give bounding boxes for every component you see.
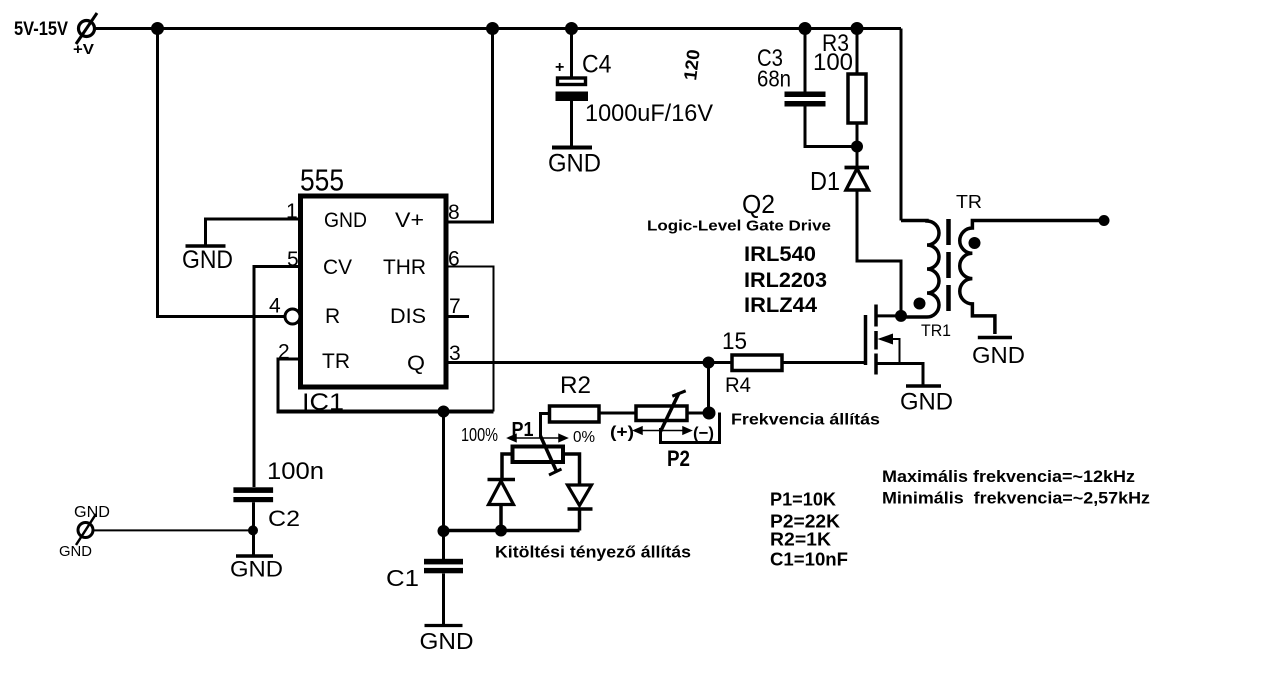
wire node to C1	[442, 412, 445, 532]
node TR/THR/C1	[438, 406, 450, 418]
svg-text:Q: Q	[407, 352, 425, 375]
svg-text:+V: +V	[73, 41, 94, 58]
wire pin 1 to ground	[206, 219, 301, 246]
svg-text:7: 7	[449, 295, 461, 318]
svg-text:GND: GND	[420, 628, 474, 654]
svg-text:Logic-Level Gate Drive: Logic-Level Gate Drive	[647, 218, 831, 235]
svg-text:1000uF/16V: 1000uF/16V	[585, 100, 713, 127]
svg-text:GND: GND	[548, 150, 601, 178]
wire V+ to pin 4 reset	[158, 29, 285, 317]
potentiometer P2	[599, 391, 720, 471]
svg-text:R2: R2	[560, 372, 591, 399]
capacitor C4	[555, 29, 713, 147]
svg-text:TR: TR	[322, 350, 350, 373]
svg-text:IRL2203: IRL2203	[744, 269, 827, 292]
svg-text:C4: C4	[582, 51, 612, 79]
node drain/primary	[895, 310, 907, 322]
ground Q2 source	[900, 386, 953, 416]
svg-text:4: 4	[269, 295, 281, 318]
svg-text:555: 555	[300, 163, 344, 198]
node top rail / reset drop	[151, 22, 164, 35]
svg-text:R4: R4	[725, 374, 751, 397]
transformer TR1 primary	[901, 221, 939, 318]
label frequency range	[882, 467, 1150, 508]
wire node down to P2	[707, 363, 710, 414]
capacitor C3	[757, 29, 857, 147]
svg-text:D1: D1	[810, 166, 840, 196]
svg-text:GND: GND	[182, 246, 233, 274]
svg-text:15: 15	[722, 328, 747, 355]
svg-text:Kitöltési tényező állítás: Kitöltési tényező állítás	[495, 543, 691, 562]
label Q2 types	[647, 189, 831, 317]
wire pin 5 CV to C2	[254, 267, 301, 488]
node top rail / C4	[565, 22, 578, 35]
wire pin 3 Q output	[448, 361, 732, 364]
svg-text:68n: 68n	[757, 66, 791, 92]
node Q/P2	[703, 357, 715, 369]
capacitor C2	[233, 458, 324, 556]
svg-text:100: 100	[813, 49, 853, 76]
wire V+ top rail	[95, 27, 901, 30]
capacitor C1	[386, 525, 463, 626]
wire pin 6 THR drop	[448, 267, 494, 412]
connector GND left	[59, 504, 110, 560]
diode left (duty)	[488, 480, 516, 531]
ground pin1	[182, 246, 233, 274]
svg-text:GND: GND	[972, 342, 1025, 368]
svg-text:+: +	[555, 59, 564, 76]
ground C2	[230, 556, 283, 582]
svg-text:GND: GND	[230, 557, 283, 582]
svg-text:8: 8	[448, 201, 460, 224]
ground C1	[420, 626, 474, 655]
svg-text:IRLZ44: IRLZ44	[744, 294, 817, 317]
svg-text:R2=1K: R2=1K	[770, 530, 831, 550]
node top rail / R3	[851, 22, 864, 35]
wire pin 2 TR loop	[278, 359, 301, 412]
svg-text:C1: C1	[386, 565, 419, 591]
node C3/R3/D1	[851, 141, 863, 153]
svg-text:GND: GND	[324, 209, 367, 232]
svg-text:TR: TR	[956, 192, 982, 212]
wire V+ to pin 8	[448, 29, 493, 223]
svg-text:100%: 100%	[461, 425, 498, 445]
wire gnd connector to C2	[94, 529, 253, 531]
svg-text:5V-15V: 5V-15V	[14, 19, 68, 40]
node top rail / C3	[799, 22, 812, 35]
svg-text:C2: C2	[268, 506, 300, 531]
svg-text:GND: GND	[74, 504, 110, 521]
svg-text:GND: GND	[900, 389, 953, 416]
resistor R2	[541, 372, 600, 437]
svg-text:P1=10K: P1=10K	[770, 490, 836, 510]
connector +V	[73, 13, 97, 58]
wire V+ to transformer primary	[900, 29, 903, 221]
mosfet Q2	[866, 305, 924, 386]
svg-text:DIS: DIS	[390, 305, 426, 328]
ground C4	[548, 148, 601, 178]
svg-text:120: 120	[680, 48, 704, 81]
svg-text:(−): (−)	[693, 424, 714, 443]
pin 7 stub	[448, 315, 469, 318]
svg-text:CV: CV	[323, 256, 352, 279]
potentiometer P1	[461, 419, 595, 485]
svg-text:P2=22K: P2=22K	[770, 512, 840, 532]
svg-text:0%: 0%	[573, 429, 595, 446]
wire bottom duty loop	[444, 529, 580, 533]
transformer TR secondary	[921, 192, 1110, 340]
diode right (duty)	[568, 485, 593, 531]
svg-text:Q2: Q2	[742, 189, 775, 219]
resistor R4	[722, 328, 782, 397]
svg-text:TR1: TR1	[921, 321, 951, 340]
svg-text:IRL540: IRL540	[744, 243, 816, 266]
node top rail / pin8 drop	[486, 22, 499, 35]
transformer core	[946, 219, 951, 318]
svg-text:THR: THR	[383, 256, 426, 279]
svg-text:V+: V+	[395, 209, 424, 232]
resistor R3	[813, 29, 866, 167]
wire R4 to gate	[782, 361, 866, 364]
svg-text:(+): (+)	[610, 423, 634, 442]
ground TR secondary	[972, 338, 1025, 369]
svg-text:Maximális frekvencia=~12kHz: Maximális frekvencia=~12kHz	[882, 467, 1135, 486]
node C2/gnd wire	[248, 525, 258, 535]
svg-text:GND: GND	[59, 543, 92, 560]
pin 4 inversion bubble	[285, 309, 300, 324]
svg-text:Minimális frekvencia=~2,57kHz: Minimális frekvencia=~2,57kHz	[882, 489, 1150, 508]
node P2/R4 junction	[703, 407, 716, 420]
label component values	[770, 490, 848, 570]
svg-text:Frekvencia állítás: Frekvencia állítás	[731, 412, 880, 429]
svg-text:C1=10nF: C1=10nF	[770, 550, 848, 570]
diode D1	[810, 166, 901, 316]
node left diode / bottom wire	[495, 525, 507, 537]
svg-text:P2: P2	[667, 446, 690, 471]
svg-text:R: R	[325, 305, 340, 328]
svg-text:100n: 100n	[267, 458, 324, 485]
555 IC1 body	[269, 163, 461, 417]
